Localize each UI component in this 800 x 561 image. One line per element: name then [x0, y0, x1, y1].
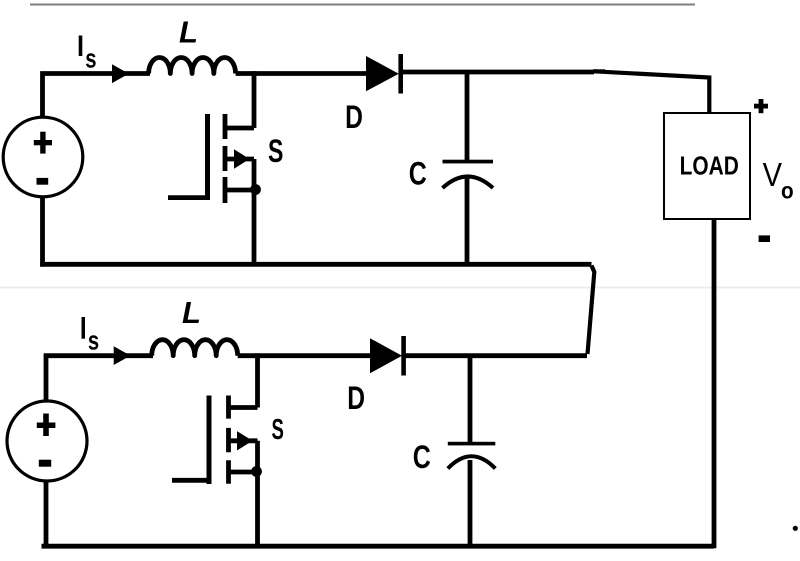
svg-text:o: o	[781, 177, 794, 203]
svg-text:S: S	[272, 414, 284, 446]
wire	[40, 197, 45, 267]
wire	[465, 72, 470, 161]
wire	[465, 178, 470, 266]
wire	[40, 71, 150, 118]
wire	[236, 71, 368, 76]
wire	[252, 190, 257, 266]
wire	[712, 219, 717, 548]
label + (output)	[754, 99, 768, 113]
label Is2	[82, 317, 100, 356]
svg-text:s: s	[85, 44, 96, 75]
current arrow Is1	[112, 64, 129, 83]
junction dot	[251, 466, 262, 477]
wire	[42, 544, 714, 549]
svg-text:L: L	[179, 14, 198, 49]
wire	[468, 356, 473, 443]
svg-text:C: C	[413, 440, 431, 476]
voltage source Vs1	[3, 117, 83, 197]
wire	[255, 353, 260, 407]
wire	[44, 353, 153, 401]
wire	[238, 353, 372, 358]
svg-text:D: D	[347, 381, 365, 417]
svg-text:S: S	[268, 133, 283, 169]
wire	[255, 472, 260, 549]
svg-text:C: C	[409, 157, 427, 193]
load box	[664, 113, 750, 219]
transistor S1	[168, 114, 254, 203]
label Is1	[79, 36, 97, 75]
wire	[588, 266, 595, 355]
label - (output)	[759, 235, 770, 242]
wire	[44, 481, 49, 549]
inductor L1	[149, 58, 236, 74]
capacitor C2	[448, 442, 496, 469]
svg-text:D: D	[345, 100, 363, 136]
svg-text:V: V	[763, 156, 783, 193]
svg-text:LOAD: LOAD	[680, 151, 739, 179]
voltage source Vs2	[7, 401, 87, 481]
diode D2	[370, 336, 404, 376]
wire	[252, 71, 257, 128]
wire	[468, 460, 473, 549]
current arrow Is2	[114, 346, 131, 365]
wire	[404, 353, 587, 358]
junction dot	[250, 184, 261, 195]
svg-text:s: s	[88, 326, 99, 357]
label Vo	[763, 156, 794, 203]
transistor S2	[172, 396, 258, 485]
wire	[400, 70, 594, 75]
diode D1	[366, 54, 401, 94]
wire	[594, 71, 709, 114]
svg-text:L: L	[182, 295, 201, 330]
period mark	[793, 526, 798, 531]
capacitor C1	[443, 160, 494, 188]
inductor L2	[152, 340, 238, 356]
wire	[40, 262, 591, 267]
